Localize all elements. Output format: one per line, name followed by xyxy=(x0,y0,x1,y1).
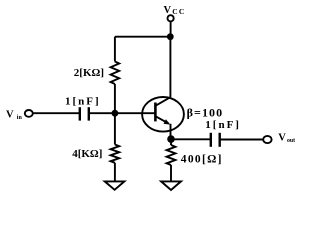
input terminal Vin xyxy=(25,110,33,117)
svg-text:V: V xyxy=(278,133,286,144)
capacitor C2 1[nF] xyxy=(211,133,220,147)
wire C1 to base junction xyxy=(89,112,115,114)
net label Vout xyxy=(278,133,295,144)
svg-text:4[KΩ]: 4[KΩ] xyxy=(72,148,102,160)
transistor Q1 collector stroke xyxy=(155,97,170,106)
junction base node xyxy=(112,110,119,117)
wire R2 to ground xyxy=(114,163,116,182)
svg-text:1[nF]: 1[nF] xyxy=(205,119,241,131)
svg-text:β=100: β=100 xyxy=(187,105,224,119)
wire C2 to Vout terminal xyxy=(220,139,264,141)
wire collector to top rail xyxy=(169,37,171,97)
wire Vcc terminal to top-rail junction xyxy=(170,21,172,36)
transistor Q1 base bar xyxy=(154,103,157,122)
wire top rail horizontal xyxy=(115,36,170,38)
junction emitter node xyxy=(167,135,175,143)
svg-text:CC: CC xyxy=(172,7,185,16)
wire emitter junction to R3 xyxy=(170,139,172,145)
transistor Q1 emitter arrowhead xyxy=(164,119,171,124)
svg-text:400[Ω]: 400[Ω] xyxy=(181,154,223,166)
wire emitter junction to C2 xyxy=(171,138,211,140)
wire emitter down to emitter junction xyxy=(170,124,172,139)
wire R1 to base junction xyxy=(114,84,116,113)
wire top rail down to R1 xyxy=(114,37,116,62)
transistor Q1 circle xyxy=(142,97,184,132)
ground under R2 xyxy=(105,181,125,189)
wire R3 to ground xyxy=(170,165,172,181)
net label Vcc xyxy=(164,5,186,16)
wire Vin terminal to C1 xyxy=(33,112,80,114)
svg-text:out: out xyxy=(287,138,295,144)
svg-text:in: in xyxy=(17,115,23,121)
junction top rail / collector xyxy=(167,33,174,40)
wire base junction down to R2 xyxy=(114,113,116,144)
capacitor C1 1[nF] xyxy=(80,107,89,120)
net label Vin xyxy=(6,109,22,120)
resistor R1 2[KOhm] xyxy=(111,62,120,84)
transistor Q1 emitter stroke xyxy=(155,116,168,123)
wire base junction to transistor base xyxy=(115,112,155,114)
ground under R3 xyxy=(161,181,181,190)
resistor R2 4[KOhm] xyxy=(111,145,120,163)
output terminal Vout xyxy=(263,136,271,143)
svg-text:1[nF]: 1[nF] xyxy=(65,95,101,107)
power terminal Vcc xyxy=(168,15,174,21)
resistor R3 400[Ohm] xyxy=(167,145,176,165)
svg-text:V: V xyxy=(6,109,14,120)
svg-text:2[KΩ]: 2[KΩ] xyxy=(74,67,104,79)
